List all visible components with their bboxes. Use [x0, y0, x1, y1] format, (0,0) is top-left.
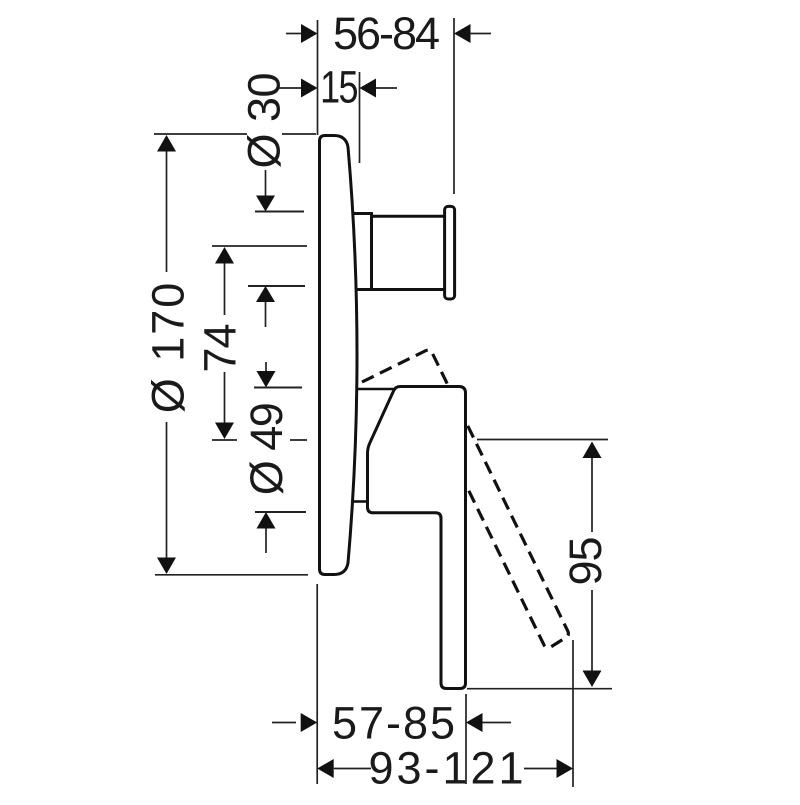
- dim D170: top extension line with gap for D30 text: [154, 133, 316, 135]
- knob body: [372, 216, 446, 289]
- escutcheon plate: [320, 136, 358, 575]
- svg-text:Ø 30: Ø 30: [239, 73, 290, 169]
- handle hub tick bottom: [353, 500, 368, 503]
- dim 93-121: left arrow: [317, 759, 334, 778]
- dim 93-121: right extension line: [572, 640, 574, 787]
- dim D30: top arrow: [265, 170, 267, 196]
- dim 95: dimension line: [591, 444, 593, 684]
- svg-text:56-84: 56-84: [333, 8, 439, 59]
- knob end cap: [445, 206, 455, 299]
- svg-text:93-121: 93-121: [368, 743, 526, 794]
- dim D49: top arrow: [265, 362, 267, 371]
- dim 95: bottom reference line: [467, 688, 612, 690]
- dim D30: bottom arrow: [256, 286, 275, 302]
- dim D49: bottom arrow: [257, 512, 276, 529]
- dim D30: bottom tick: [248, 285, 305, 287]
- dim 95: bottom arrow: [583, 671, 602, 688]
- svg-text:15: 15: [320, 62, 357, 113]
- dim D30: top tick: [255, 211, 304, 213]
- dim 93-121: right arrow: [557, 759, 574, 778]
- svg-text:Ø 49: Ø 49: [241, 404, 292, 496]
- dim 57-85: left extension line: [316, 584, 318, 784]
- dashed lever (open position): [362, 350, 568, 648]
- svg-text:95: 95: [560, 537, 611, 585]
- dim D170: bottom extension line: [155, 574, 308, 576]
- dim 74: top arrow: [215, 247, 234, 264]
- dim 95: top arrow: [583, 442, 602, 459]
- dim 15: left arrow: [277, 87, 302, 89]
- dim 74: top extension line: [212, 245, 307, 247]
- handle (closed position): [368, 387, 466, 689]
- dim 56-84: left extension line: [317, 20, 319, 135]
- dim 56-84: right extension line: [453, 18, 455, 194]
- dim 74: bottom extension line with gap for 49 text: [212, 439, 307, 441]
- dim D170: top arrow: [157, 135, 176, 152]
- dim 57-85: right arrow: [466, 713, 483, 732]
- svg-text:57-85: 57-85: [332, 698, 457, 749]
- dim 95: top reference line: [477, 439, 608, 441]
- dim D170: dimension line: [166, 137, 168, 572]
- dim D49: top tick: [254, 387, 302, 389]
- dim 57-85: right extension line: [465, 694, 467, 784]
- svg-text:Ø 170: Ø 170: [143, 281, 194, 414]
- handle hub tick top: [357, 388, 395, 391]
- dim 74: dimension line: [224, 249, 226, 437]
- dim 15: right extension line: [359, 72, 361, 163]
- dim D49: bottom tick: [255, 511, 306, 513]
- dim 74: bottom arrow: [215, 423, 234, 440]
- dim 57-85: left arrow: [272, 722, 296, 724]
- svg-text:74: 74: [195, 324, 246, 372]
- dim 15: right arrow: [360, 79, 377, 98]
- dim 56-84: right arrow: [454, 24, 471, 43]
- dim 56-84: left arrow: [286, 33, 302, 35]
- knob collar: [354, 214, 372, 290]
- dim D170: bottom arrow: [157, 558, 176, 575]
